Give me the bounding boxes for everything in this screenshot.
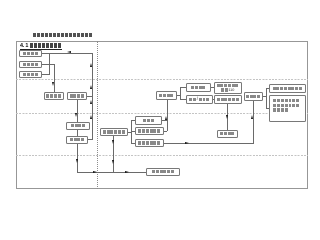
outer frame: [16, 41, 308, 189]
wire to 无异常: [131, 120, 135, 121]
wire 分析判断I right: [177, 95, 181, 96]
wire to 发现可疑人员: [131, 131, 135, 132]
box 分析判断 I: [156, 91, 177, 100]
wire 巡逻 down: [113, 136, 114, 172]
wire 领班 down: [227, 104, 228, 130]
wire box3-right: [42, 74, 49, 75]
box 领班处理: [217, 130, 238, 138]
wire 图像采集 down: [77, 144, 78, 173]
swimlane separator y79: [16, 79, 308, 80]
arrow down 巡逻2: [112, 160, 114, 164]
box 请求相关部门处理: [269, 84, 306, 93]
box 发现可疑人员: [135, 127, 164, 135]
box 发现突发事件: [135, 139, 164, 147]
box 特别要求: [19, 61, 42, 69]
wire 分析判断N right: [263, 96, 267, 97]
box 通知保安领班: [214, 95, 242, 104]
arrow left feedback: [67, 51, 71, 53]
arrow down 巡逻1: [112, 140, 114, 144]
wire 相关回访 down: [77, 130, 78, 137]
wire 可疑人员 right: [164, 131, 168, 132]
arrow up fb1: [90, 63, 92, 67]
wire input bracket: [49, 53, 50, 75]
wire feedback top: [49, 53, 93, 54]
arrow down 图像采集drop: [76, 159, 78, 163]
wire down to 分析判断A: [54, 64, 55, 93]
title 中交物业保安工作流程图全集: [32, 33, 92, 38]
box 安全监控防范 报110: [214, 82, 242, 95]
arrow down to 领班处理: [226, 115, 228, 119]
arrow up to 分析判断N: [251, 115, 253, 119]
wire 突发事件 right: [164, 143, 254, 144]
wire JK bracket: [180, 87, 181, 99]
wire 沟通知会 down: [77, 100, 78, 122]
box 无异常: [135, 116, 162, 125]
box 物业管理处处理并通知分公司公安等部门: [269, 95, 306, 122]
wire to 物业管理处: [266, 108, 269, 109]
wire 无异常 right T: [162, 120, 167, 121]
wire 图像采集 right: [88, 139, 92, 140]
arrow right 突发线: [185, 142, 189, 144]
arrow down to 相关回访: [75, 113, 77, 117]
arrow up to 分析判断I: [165, 116, 167, 120]
swimlane separator y113: [16, 113, 308, 114]
wire NO bracket: [266, 88, 267, 108]
swimlane separator y154: [16, 155, 308, 156]
box 分析判断 N: [244, 92, 263, 101]
box 流动人员: [186, 83, 211, 92]
dotted column divider x97: [97, 41, 98, 189]
box 业主部门: [19, 71, 42, 79]
box 分析判断 A: [44, 92, 64, 100]
wire patrol bracket: [131, 120, 132, 143]
wire up to 分析判断I: [167, 100, 168, 132]
wire up to 分析判断N: [253, 101, 254, 144]
box 相关回访: [66, 122, 90, 130]
wire to 白天重要人: [180, 99, 186, 100]
wire to 流动人员: [180, 87, 186, 88]
box 图像采集: [66, 136, 88, 144]
box 白天重要人: [186, 95, 213, 104]
box 日常定时巡逻: [100, 128, 128, 136]
wire bracket-step: [49, 64, 55, 65]
box 沟通知会: [67, 92, 88, 100]
arrow right bottom1: [93, 171, 97, 173]
arrow up fb2: [90, 85, 92, 89]
arrow right bottom2: [125, 171, 129, 173]
heading 4.1 小区安全防范体系: [20, 43, 62, 51]
wire 沟通知会 right T: [87, 96, 92, 97]
wire to 发现突发事件: [131, 143, 135, 144]
box 治安热点: [19, 50, 42, 58]
wire feedback vertical: [92, 53, 93, 140]
wire to 请求相关部门: [266, 88, 269, 89]
arrow down to 分析判断A: [52, 82, 54, 86]
arrow up fb3: [90, 100, 92, 104]
arrow up fb4: [90, 115, 92, 119]
wire bottom collect: [77, 172, 146, 173]
box 各类信息记录: [146, 168, 180, 176]
wire 白天 right: [213, 99, 215, 100]
wire box1-right: [42, 53, 49, 54]
wire box2-right: [42, 64, 49, 65]
wire 巡逻 right: [128, 132, 132, 133]
wire 流动人员 right: [211, 87, 214, 88]
